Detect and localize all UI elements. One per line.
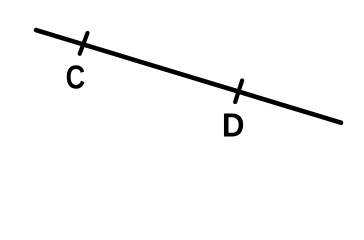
svg-text:D: D bbox=[222, 107, 245, 144]
svg-text:C: C bbox=[66, 60, 86, 96]
